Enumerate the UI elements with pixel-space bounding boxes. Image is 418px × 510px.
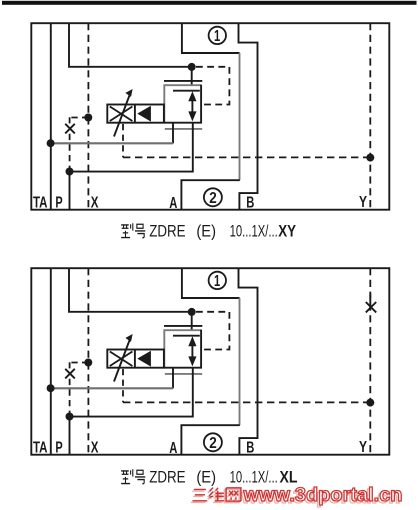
- svg-text:10...1X/...: 10...1X/...: [230, 223, 278, 241]
- svg-text:XY: XY: [278, 223, 296, 241]
- svg-text:www.3dportal.cn: www.3dportal.cn: [242, 485, 402, 506]
- svg-text:ZDRE: ZDRE: [149, 223, 185, 241]
- svg-text:(E): (E): [196, 469, 216, 487]
- svg-text:XL: XL: [280, 469, 298, 487]
- svg-text:(E): (E): [196, 223, 216, 241]
- svg-text:10...1X/...: 10...1X/...: [230, 469, 278, 487]
- svg-text:ZDRE: ZDRE: [149, 469, 185, 487]
